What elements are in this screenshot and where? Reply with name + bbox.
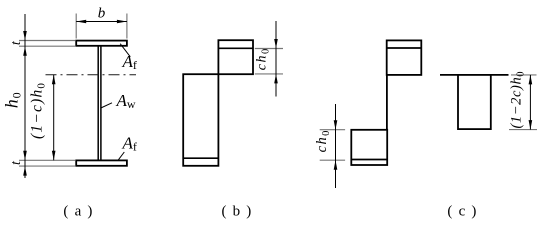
web Aw of I-beam bbox=[98, 47, 101, 161]
ch0 extension lines of part c bbox=[320, 130, 345, 161]
left dimension line for t, h0, t bbox=[23, 14, 27, 178]
svg-text:( b ): ( b ) bbox=[222, 204, 253, 220]
svg-text:(1−2c)h0: (1−2c)h0 bbox=[509, 71, 527, 128]
leader line to Aw label bbox=[101, 103, 112, 108]
label (1-c)h0 bbox=[29, 83, 48, 139]
connecting vertical line of part c bbox=[386, 75, 388, 130]
lower block (c*h0 web + flange) of part c bbox=[351, 130, 387, 165]
flange thickness extension lines (top flange) bbox=[19, 41, 75, 47]
dimension b line with arrows bbox=[76, 20, 127, 24]
flange line inside lower block of part b bbox=[183, 157, 218, 159]
dimension (1-2c)h0 of part c bbox=[529, 75, 533, 130]
label t (bottom flange thickness) bbox=[9, 160, 24, 165]
middle web block (1-2c)h0 of part c bbox=[458, 75, 491, 129]
label t (top flange thickness) bbox=[9, 40, 24, 45]
(1-2c)h0 extension lines of part c bbox=[509, 75, 537, 130]
flange line inside lower block of part c bbox=[351, 159, 387, 161]
svg-text:(1−c)h0: (1−c)h0 bbox=[29, 83, 48, 139]
top line of middle web block of part c bbox=[440, 74, 509, 76]
upper block (flange + c*h0 web) of part b bbox=[218, 40, 253, 74]
label h0 (web clear height) bbox=[2, 92, 24, 108]
ch0 extension lines of part b bbox=[255, 49, 283, 74]
svg-text:b: b bbox=[98, 6, 106, 22]
centroid dash-dot line bbox=[46, 74, 137, 76]
top flange Af of I-beam bbox=[76, 41, 127, 46]
upper block (flange + c*h0 web) of part c bbox=[387, 40, 422, 75]
leader line to bottom Af label bbox=[118, 152, 124, 160]
flange thickness extension lines (bottom flange) bbox=[19, 160, 75, 166]
dimension b extension lines bbox=[76, 14, 127, 39]
label ch0 of part c bbox=[314, 131, 332, 153]
leader line to top Af label bbox=[120, 44, 130, 57]
lower block (web + flange) of part b bbox=[183, 74, 218, 166]
flange line inside upper block of part b bbox=[218, 47, 253, 49]
dimension ch0 of part b bbox=[274, 21, 278, 97]
flange line inside upper block of part c bbox=[387, 47, 422, 49]
bottom flange Af of I-beam bbox=[76, 160, 127, 165]
svg-text:( a ): ( a ) bbox=[63, 204, 93, 220]
dimension (1-c)h0 line with arrows bbox=[52, 75, 56, 161]
label ch0 of part b bbox=[255, 49, 272, 70]
svg-text:( c ): ( c ) bbox=[447, 204, 477, 220]
dimension ch0 of part c bbox=[334, 104, 338, 188]
label (1-2c)h0 bbox=[509, 71, 527, 128]
